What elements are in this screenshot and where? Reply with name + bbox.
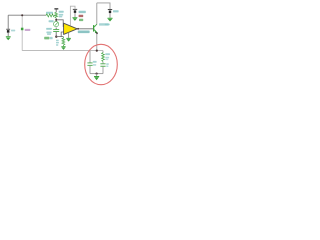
label C1 row1	[46, 28, 52, 30]
wire opamp output	[77, 28, 93, 30]
wire R1 to node	[54, 14, 56, 16]
wire left loop vertical	[21, 15, 23, 50]
wire R2 to node	[55, 18, 57, 21]
label V1	[11, 30, 15, 32]
label V2	[113, 10, 119, 12]
label ground net	[105, 24, 110, 26]
battery V2	[108, 9, 112, 18]
wire ground stub	[96, 74, 98, 76]
transistor Q1	[93, 24, 98, 34]
wire bottom rail	[22, 50, 103, 52]
wire R4 to C3	[102, 62, 104, 64]
ground opamp	[66, 38, 71, 42]
node junction emitter rail	[96, 50, 98, 52]
ground V3	[72, 17, 77, 21]
label probe purple	[25, 29, 31, 31]
wire V1 drop	[7, 15, 9, 29]
ground R3	[61, 46, 65, 50]
label U1 value	[78, 31, 90, 34]
wire C2 bottom	[89, 66, 91, 74]
node output pin dot	[77, 28, 79, 30]
battery V1	[6, 29, 10, 36]
wire opamp V+ supply	[70, 6, 75, 25]
node junction bottom	[96, 73, 98, 75]
resistor R4	[102, 53, 105, 62]
wire source to C1	[55, 28, 57, 30]
resistor R2	[55, 12, 58, 18]
node junction input	[55, 36, 57, 38]
wire collector vertical	[96, 3, 98, 24]
label R2 row2	[59, 14, 64, 18]
source V4 circle	[54, 22, 59, 27]
label Q1	[99, 23, 109, 25]
wire junction to R3 top	[56, 36, 63, 38]
wire top right over	[97, 3, 110, 9]
wire R2 terminal top bar	[54, 8, 58, 9]
wire rect right branch top	[102, 51, 104, 53]
op-amp U1	[64, 23, 78, 34]
label source VCC	[49, 20, 54, 22]
wire to opamp minus input	[61, 32, 64, 37]
ground V2	[107, 18, 112, 22]
wire opamp V- to ground	[68, 32, 70, 38]
node junction top rail	[21, 14, 23, 16]
label V3 teal	[79, 11, 86, 13]
label U1A green	[44, 37, 49, 40]
wire C1 to junction	[55, 32, 57, 37]
label V3 row3 green	[79, 19, 83, 21]
ground V1	[6, 36, 11, 40]
label R2 row1	[59, 11, 64, 13]
label C1 row2	[46, 32, 51, 35]
label R1	[46, 12, 53, 14]
annotation red ellipse	[85, 44, 118, 84]
wire rect bottom	[90, 73, 103, 75]
label C2	[93, 61, 97, 66]
battery V3	[73, 9, 77, 17]
capacitor C1	[53, 29, 59, 32]
wire C3 bottom	[102, 67, 104, 74]
wire node to opamp plus input	[56, 20, 64, 27]
wire rect left branch	[89, 51, 91, 63]
ground bottom	[94, 76, 99, 80]
resistor R3	[62, 37, 65, 47]
wire R2 top stub	[55, 10, 57, 13]
capacitor C2	[87, 63, 92, 66]
label R4	[105, 53, 110, 60]
capacitor C3	[100, 63, 105, 66]
label V3 value maroon	[79, 15, 84, 17]
label C3	[106, 63, 109, 67]
label R3 dashes	[56, 40, 59, 46]
wire emitter vertical	[96, 33, 98, 50]
probe P1	[21, 28, 24, 31]
wire top rail	[8, 14, 46, 16]
node circle top	[55, 19, 57, 21]
resistor R1	[46, 14, 55, 17]
